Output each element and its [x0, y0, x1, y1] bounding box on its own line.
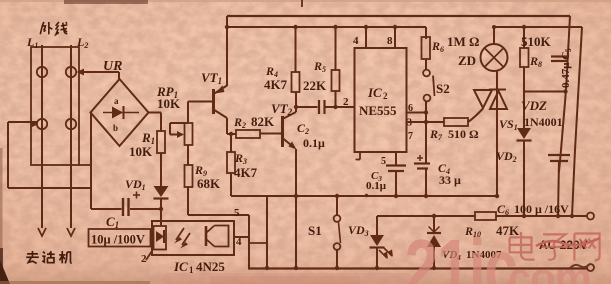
svg-text:NE555: NE555 [359, 103, 397, 118]
svg-text:IC: IC [173, 259, 188, 274]
svg-text:1N4001: 1N4001 [524, 115, 563, 129]
svg-text:1M Ω: 1M Ω [447, 34, 479, 49]
svg-text:S1: S1 [308, 223, 322, 238]
svg-text:4N25: 4N25 [196, 259, 225, 274]
svg-text:100 μ /16V: 100 μ /16V [514, 202, 569, 216]
svg-text:4: 4 [236, 236, 242, 248]
svg-text:10K: 10K [129, 144, 153, 159]
svg-text:4: 4 [353, 35, 359, 47]
svg-text:33 μ: 33 μ [439, 173, 461, 187]
svg-text:b: b [113, 123, 118, 133]
svg-text:S2: S2 [436, 81, 450, 96]
svg-text:22K: 22K [303, 78, 327, 93]
svg-text:5: 5 [234, 207, 240, 219]
svg-text:82K: 82K [251, 114, 275, 129]
svg-text:2: 2 [141, 253, 147, 265]
svg-text:a: a [114, 96, 119, 106]
svg-text:4K7: 4K7 [264, 77, 288, 92]
svg-text:10μ /100V: 10μ /100V [91, 233, 145, 247]
svg-text:IC: IC [367, 85, 382, 100]
svg-text:10K: 10K [157, 96, 181, 111]
svg-text:0.1μ: 0.1μ [303, 136, 325, 150]
svg-text:2: 2 [383, 91, 388, 101]
svg-text:8: 8 [387, 35, 393, 47]
svg-text:510K: 510K [521, 34, 552, 49]
svg-text:VDZ: VDZ [521, 98, 547, 113]
svg-text:4K7: 4K7 [234, 165, 258, 180]
svg-text:68K: 68K [197, 176, 221, 191]
svg-text:0.1μ: 0.1μ [366, 180, 387, 192]
svg-text:2: 2 [343, 96, 349, 108]
svg-text:5: 5 [381, 156, 386, 167]
svg-text:510 Ω: 510 Ω [448, 127, 479, 141]
svg-text:0.47μ C5: 0.47μ C5 [560, 48, 573, 88]
svg-text:.com: .com [497, 254, 591, 284]
svg-text:UR: UR [103, 59, 122, 74]
svg-text:ZD: ZD [458, 53, 476, 68]
svg-text:7: 7 [408, 131, 413, 142]
